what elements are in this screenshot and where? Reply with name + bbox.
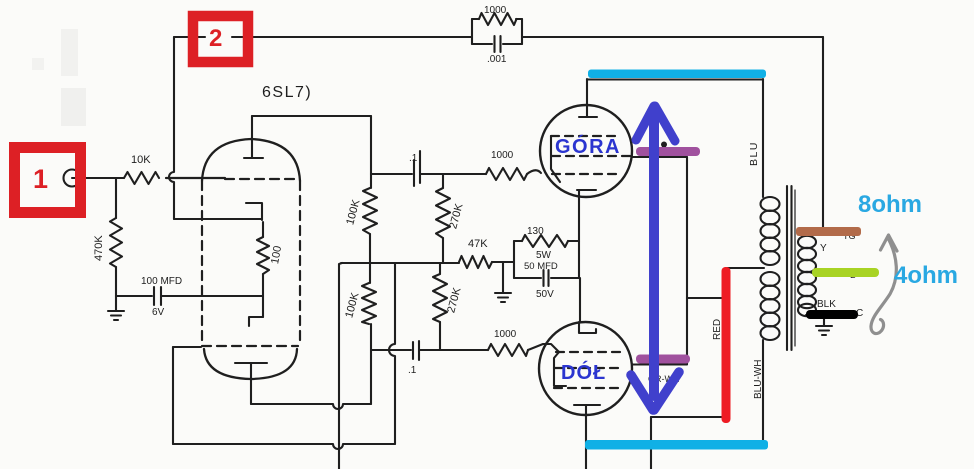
wire cap upper to 270K [421, 173, 443, 175]
ground bias [495, 262, 511, 302]
DOL interior left bracket [554, 352, 566, 386]
svg-text:Y: Y [820, 243, 827, 254]
tube 6SL7 envelope top arc [202, 139, 300, 181]
resistor 270K lower [433, 274, 447, 322]
resistor 100 lead bottom to node [262, 274, 264, 317]
wire node to 100MFD cap [116, 295, 152, 297]
cathode K2 hook [249, 317, 263, 326]
wire plate2 column up to 100K [370, 324, 372, 404]
output tube GORA circle [540, 105, 632, 197]
annotation red box 1 [15, 148, 81, 213]
input jack J1 [64, 170, 81, 187]
ground input [108, 296, 124, 320]
resistor 100K upper [363, 188, 377, 234]
wire GORA screen [632, 156, 687, 158]
wire 10K to grid node [166, 177, 225, 179]
transformer secondary coil [798, 236, 816, 316]
svg-text:RED: RED [712, 319, 723, 340]
wire input to node [81, 177, 125, 179]
svg-text:.1: .1 [408, 365, 417, 376]
svg-text:1000: 1000 [494, 329, 517, 340]
wire cap lower to 270K lower [420, 349, 440, 351]
svg-text:BLU-WH: BLU-WH [753, 360, 764, 399]
svg-text:6V: 6V [152, 307, 165, 318]
wire 47K to box [492, 261, 514, 263]
wire plate2 horizontal run with hop [251, 404, 371, 409]
DOL plate stem [585, 405, 587, 469]
wire screen vertical [686, 157, 688, 364]
secondary tap 4ohm wire [806, 271, 872, 273]
wire 270K lower to bias rail [439, 263, 441, 274]
svg-text:47K: 47K [468, 238, 488, 250]
wire feedback to cathode 1 [174, 218, 261, 220]
capacitor .1 upper [414, 151, 420, 186]
transformer primary coil upper [761, 197, 780, 265]
wire 1000 lower to tube DOL [528, 344, 559, 352]
DOL cathode hook [579, 322, 596, 333]
DOL cathode stem wire [579, 278, 581, 322]
wire B plus vertical from bottom edge [339, 263, 342, 469]
wire 270K upper to bias rail [442, 238, 444, 263]
GORA grid dashed [552, 155, 630, 157]
feedback network box resistor 1000 and cap .001 [472, 13, 522, 52]
annotation purple bar top [636, 147, 700, 156]
transformer primary lead bottom [762, 340, 764, 444]
resistor 1000 upper [486, 168, 527, 180]
wire 100K upper to bias rail [369, 234, 371, 263]
svg-text:470K: 470K [93, 235, 105, 261]
svg-text:BLK: BLK [817, 299, 836, 310]
wire feedback vertical with hop over grid wire [169, 37, 174, 219]
svg-text:50 MFD: 50 MFD [524, 261, 558, 272]
wire B plus bottom run [651, 416, 726, 418]
wire grid run lower [440, 349, 488, 351]
wire feedback right run [522, 36, 823, 38]
wire DOL plate to transformer bottom [586, 443, 763, 445]
annotation blue arrow [631, 106, 679, 410]
resistor 270K upper lead [442, 174, 444, 188]
wire feedback right vertical to secondary [822, 37, 824, 232]
resistor 100K lower [362, 283, 376, 324]
DOL grid dashed mid [554, 367, 620, 369]
svg-text:4ohm: 4ohm [894, 262, 958, 289]
bias network box with resistor 130 and cap 50MFD [514, 235, 579, 286]
svg-text:2: 2 [209, 25, 222, 52]
transformer core [787, 186, 795, 350]
plate P2 bar [235, 362, 267, 364]
wire top junction down [370, 116, 372, 188]
resistor 270K upper [436, 188, 450, 238]
svg-text:10K: 10K [131, 154, 151, 166]
annotation red box 2 [193, 16, 248, 62]
resistor 100K lower lead [369, 263, 371, 283]
tube 6SL7 bottom dome [204, 349, 297, 379]
wire B plus down to edge [650, 417, 652, 469]
output tube DOL circle [539, 322, 632, 415]
grid G2 stub wire [173, 346, 201, 348]
resistor 100 [257, 237, 269, 274]
GORA interior left bracket [551, 136, 560, 182]
capacitor .1 lower [413, 341, 419, 360]
plate P1 stem [251, 116, 253, 158]
wire cap node to coupling cap lower [372, 349, 411, 351]
annotation cyan bar top [588, 70, 766, 79]
wire B plus center tap vertical [725, 268, 727, 417]
GORA cathode bar [577, 189, 596, 191]
svg-text:BLU: BLU [748, 141, 760, 166]
resistor 270K lower lead [439, 322, 441, 350]
resistor 470K [110, 218, 122, 267]
screen node dot [661, 142, 667, 148]
wire cap to cathode chain [162, 295, 263, 297]
capacitor 100MFD [154, 287, 161, 305]
wire grid2 vertical left [172, 347, 174, 444]
resistor 100 lead top [262, 222, 264, 237]
grid G1 dashed [225, 178, 298, 180]
GORA plate bar [579, 116, 597, 118]
wire node down to 470K [115, 178, 117, 218]
svg-text:8ohm: 8ohm [858, 191, 922, 218]
DOL beam dashed [554, 387, 621, 389]
tube 6SL7 envelope dashed sides [202, 181, 300, 345]
wire grid run upper [443, 173, 486, 175]
wire DOL screen [632, 363, 687, 365]
wire bias rail horizontal [341, 262, 459, 264]
secondary tap 8ohm wire [806, 233, 855, 235]
cathode K1 hook [246, 203, 262, 220]
wire plate1 top run [252, 115, 371, 117]
tube 6SL7 envelope dashed bottom line [202, 345, 298, 347]
plate P2 stem [250, 363, 252, 404]
wire junction to coupling cap upper [371, 173, 412, 175]
resistor 47K [459, 256, 492, 268]
transformer primary lead top [762, 79, 764, 197]
svg-text:1: 1 [33, 164, 48, 194]
wire 470K to cap node [115, 267, 117, 296]
svg-text:.1: .1 [409, 153, 418, 164]
annotation red bar [722, 267, 731, 423]
annotation green bar [812, 268, 879, 277]
annotation black bar [806, 310, 858, 319]
svg-text:GÓRA: GÓRA [555, 134, 621, 158]
annotation gray arrow [871, 235, 897, 334]
wire GORA plate to transformer top [587, 78, 763, 80]
secondary tap common wire [806, 314, 850, 316]
wire screen to B plus [687, 297, 728, 299]
annotation purple bar bottom [636, 355, 690, 364]
plate P1 bar [244, 157, 263, 159]
resistor 10K [124, 172, 159, 184]
wire center tap horizontal [726, 267, 764, 269]
GORA screen dashed [551, 135, 620, 137]
wire 1000 upper to tube [527, 170, 541, 174]
svg-text:.001: .001 [487, 54, 507, 65]
DOL grid dashed top [556, 351, 621, 353]
svg-text:100 MFD: 100 MFD [141, 276, 182, 287]
resistor 1000 lower [488, 344, 528, 356]
svg-text:6SL7): 6SL7) [262, 84, 312, 101]
annotation brown bar [796, 227, 861, 236]
svg-text:1000: 1000 [484, 5, 507, 16]
GORA plate stem [586, 79, 588, 117]
svg-text:50V: 50V [536, 289, 554, 300]
svg-text:130: 130 [527, 226, 544, 237]
svg-text:DÓŁ: DÓŁ [561, 360, 606, 384]
svg-text:5W: 5W [536, 250, 552, 261]
ground secondary [816, 315, 832, 335]
transformer primary coil lower [761, 272, 780, 340]
wire bottom rail with hop [173, 444, 395, 449]
annotation cyan bar bottom [585, 440, 768, 450]
red box 2 feedback wire corner [174, 36, 472, 38]
GORA beam dashed [552, 173, 621, 175]
GORA cathode stem [578, 190, 580, 241]
DOL plate bar [574, 404, 600, 406]
svg-text:1000: 1000 [491, 150, 514, 161]
wire bottom rail corner up [389, 263, 395, 444]
